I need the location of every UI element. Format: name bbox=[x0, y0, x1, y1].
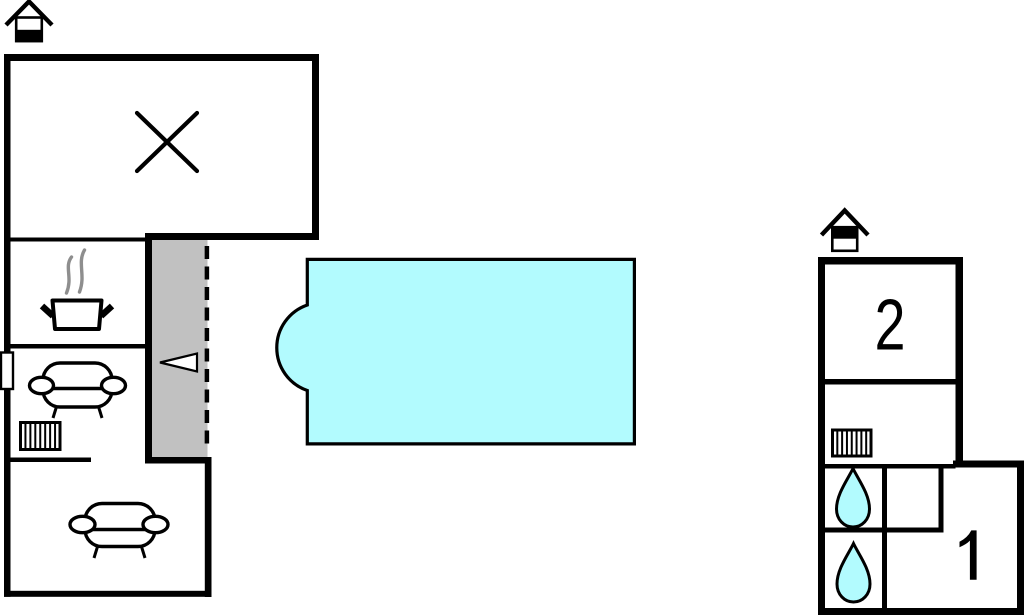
right building: interior vertical wall right of drops bbox=[882, 464, 887, 608]
left building: thin wall above kitchen bbox=[4, 238, 149, 242]
left building: top wall bbox=[4, 54, 319, 61]
right building: extension top wall bbox=[953, 461, 1024, 468]
house level icon ground floor: box bbox=[16, 18, 42, 42]
house level icon ground floor: black lower half bbox=[15, 30, 42, 42]
sofa bottom room: left armrest bbox=[70, 516, 95, 532]
right building: left wall bbox=[818, 257, 825, 615]
stove: right handle bbox=[101, 306, 112, 316]
svg-text:2: 2 bbox=[875, 286, 906, 366]
dashed open edge of stairs bbox=[205, 246, 210, 444]
radiator first floor bbox=[833, 430, 872, 456]
sofa living room: legs bbox=[53, 405, 102, 418]
left building: left wall bbox=[4, 54, 11, 597]
left building: thick bottom wall of X room bbox=[145, 233, 319, 240]
X mark in top room bbox=[137, 113, 197, 171]
sofa bottom room: right armrest bbox=[143, 516, 168, 532]
shower drop upper bbox=[837, 469, 870, 528]
stove: pot body bbox=[53, 301, 102, 330]
radiator living room bbox=[21, 423, 61, 450]
window in left wall bbox=[1, 353, 13, 390]
stairs gray area bbox=[148, 237, 208, 457]
left building: kitchen/living divider wall bbox=[4, 344, 148, 349]
pool bbox=[277, 259, 635, 444]
right building: interior horizontal wall between drop cells bbox=[818, 528, 944, 533]
right building: right wall upper bbox=[956, 257, 964, 467]
right building: top wall bbox=[818, 257, 963, 265]
left building: right wall of X room bbox=[312, 54, 319, 240]
right building: interior vertical wall right of middle cell bbox=[939, 464, 944, 533]
left building: bottom room right wall bbox=[205, 457, 212, 597]
shower drop lower bbox=[837, 544, 870, 603]
sofa living room: body bbox=[43, 363, 112, 407]
left building: stair shaft left wall bbox=[145, 233, 152, 462]
house level icon first floor: box bbox=[832, 227, 857, 251]
left building: living/bottom-room divider wall bbox=[4, 458, 91, 463]
stove: left handle bbox=[42, 306, 53, 316]
sofa living room: seat line bbox=[44, 387, 111, 390]
sofa bottom room: body bbox=[85, 504, 155, 547]
sofa living room: right armrest bbox=[102, 377, 126, 393]
house level icon first floor: black upper half bbox=[831, 226, 859, 239]
stairs direction arrow bbox=[160, 354, 197, 372]
left building: stair shaft bottom wall bbox=[145, 457, 212, 464]
house level icon ground floor: roof bbox=[6, 2, 52, 26]
stove: steam lines bbox=[67, 250, 85, 293]
house level icon first floor: roof bbox=[822, 211, 869, 236]
right building: interior wall below room 2 bbox=[825, 379, 956, 385]
sofa living room: left armrest bbox=[30, 377, 54, 393]
right building: interior wall below radiator row bbox=[825, 464, 956, 469]
sofa bottom room: seat line bbox=[86, 528, 154, 531]
right building: right wall lower bbox=[1017, 461, 1024, 615]
sofa bottom room: legs bbox=[94, 545, 145, 558]
left building: bottom wall bbox=[4, 591, 212, 597]
right building: bottom wall bbox=[818, 608, 1024, 615]
room number 1 bbox=[960, 530, 977, 579]
